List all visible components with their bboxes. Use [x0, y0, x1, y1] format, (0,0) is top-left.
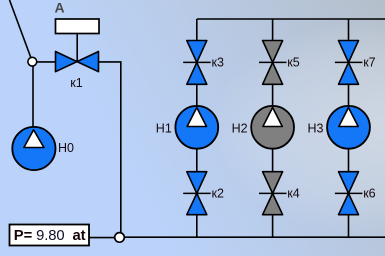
svg-text:к4: к4: [287, 187, 299, 201]
node B junction: [115, 233, 125, 243]
svg-text:H0: H0: [58, 141, 74, 155]
pump H1: [175, 106, 218, 149]
wire diagonal inlet: [10, 0, 32, 58]
valve K3: [183, 41, 211, 85]
manifold bottom header wire: [89, 236, 385, 238]
wire node A down to pump H0: [32, 62, 34, 130]
pump H3: [327, 106, 370, 149]
svg-text:к7: к7: [363, 56, 375, 70]
valve K5: [259, 41, 287, 85]
svg-text:P= 9.80 at: P= 9.80 at: [14, 228, 86, 244]
wire node A to valve K1: [37, 61, 56, 63]
valve K4: [259, 172, 287, 215]
svg-text:к5: к5: [287, 56, 299, 70]
svg-text:H2: H2: [232, 121, 248, 135]
valve K6: [335, 172, 363, 215]
valve K7: [335, 41, 363, 85]
manifold top header wire: [197, 18, 385, 20]
valve K1: [56, 52, 99, 72]
pressure readout box: [10, 225, 90, 246]
actuator box of valve K1: [56, 19, 100, 34]
svg-text:A: A: [54, 0, 64, 16]
wire valve K1 to downpipe: [99, 62, 121, 233]
branch 3 wires: [348, 19, 350, 237]
svg-text:H3: H3: [308, 121, 324, 135]
node A junction: [28, 57, 37, 66]
svg-text:к1: к1: [70, 76, 82, 90]
svg-text:к2: к2: [212, 187, 224, 201]
svg-text:к3: к3: [212, 56, 224, 70]
wire actuator stem: [76, 34, 78, 62]
valve K2: [183, 172, 211, 215]
svg-text:H1: H1: [156, 121, 172, 135]
svg-text:к6: к6: [363, 187, 375, 201]
branch 1 wires: [196, 19, 198, 237]
branch 2 wires: [272, 19, 274, 237]
pump H2: [251, 106, 294, 149]
pump H0: [12, 127, 55, 170]
